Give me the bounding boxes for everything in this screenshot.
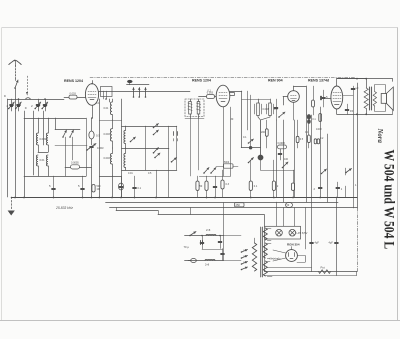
wire HT run — [267, 267, 312, 269]
wire osc vertical — [99, 99, 101, 197]
wire B+ v4 — [306, 115, 307, 249]
label misc b — [25, 106, 27, 110]
page edge right — [397, 28, 399, 320]
tube V3 electrodes — [291, 96, 297, 101]
wire box right vertical2 — [176, 126, 178, 170]
node input dashed link — [26, 76, 28, 95]
output transformer T2 core — [370, 87, 372, 110]
wire antenna lead-in — [15, 78, 17, 81]
label C3 value — [31, 104, 33, 108]
label L10 — [263, 108, 270, 111]
resistor R5 — [196, 176, 199, 197]
wire rail3 left — [24, 176, 86, 178]
wire rect to filter — [297, 256, 306, 263]
IF T1 hatch — [188, 103, 201, 111]
wire box vert mid — [145, 126, 147, 170]
resistor R5b — [205, 176, 208, 197]
label misc d — [231, 118, 234, 121]
wire osc link y120 — [99, 120, 121, 122]
switch S8 tone — [321, 169, 327, 174]
capacitor C3 — [34, 99, 40, 111]
label selector voltages — [243, 250, 247, 264]
wire V1 drop — [86, 118, 88, 176]
page edge left — [1, 28, 3, 320]
label R6 — [226, 183, 230, 186]
resistor R9 — [291, 170, 294, 197]
capacitor C22 — [218, 235, 222, 249]
wire B+ v1 — [276, 120, 278, 226]
wire B+ v2 — [283, 120, 285, 226]
label L2 value — [40, 158, 46, 162]
switch S3a — [130, 137, 136, 142]
svg-text:0.5: 0.5 — [300, 138, 304, 141]
wire V1 plate out — [99, 91, 190, 100]
capacitor C20 — [336, 182, 343, 197]
wire bottom power 2 — [265, 272, 357, 276]
wire kHz drop — [156, 170, 158, 197]
label C8 — [326, 95, 328, 99]
mains choke L12 — [206, 229, 216, 236]
switch S12 — [210, 168, 216, 174]
coil L4 — [46, 155, 48, 176]
capacitor C17 — [278, 149, 282, 160]
wire V3 plate out — [294, 86, 307, 115]
connector blob dial — [127, 80, 132, 85]
wire band sw drop b — [72, 137, 74, 160]
wire box top rail — [122, 126, 177, 128]
svg-text:0.1: 0.1 — [243, 136, 247, 139]
tube V1 envelope — [85, 84, 98, 106]
label R8 — [277, 185, 279, 188]
svg-text:70 µ: 70 µ — [184, 245, 190, 249]
svg-text:0.003: 0.003 — [104, 133, 111, 136]
switch S5 — [248, 158, 254, 164]
capacitor C8 — [322, 90, 326, 107]
switch S2 band left a — [62, 130, 67, 138]
component dark C18 — [307, 114, 317, 124]
bus ground main — [11, 197, 357, 199]
switch S3c — [153, 130, 159, 135]
label tube V1 RENS 1204 — [64, 79, 83, 83]
label RGN 354 — [287, 242, 300, 246]
IF T1 coil a — [189, 99, 192, 118]
label Netztrafo — [270, 257, 281, 261]
capacitor C23 — [221, 249, 225, 261]
label misc l — [128, 172, 133, 175]
label misc e — [243, 136, 247, 139]
wire left vertical 2 — [15, 99, 17, 197]
wire det h3 — [250, 160, 252, 162]
tube V2 side tab — [230, 93, 235, 96]
resistor R11 — [261, 120, 268, 148]
svg-text:0.0005: 0.0005 — [71, 162, 79, 165]
wire B+ v8 — [336, 197, 338, 276]
wire secondary bottom loop — [375, 103, 386, 111]
resistor R12 — [296, 120, 304, 148]
svg-text:30: 30 — [231, 118, 234, 121]
svg-text:1/4W: 1/4W — [316, 128, 322, 131]
svg-text:1: 1 — [341, 187, 343, 191]
resistor R7 — [249, 160, 252, 197]
speaker LS cone — [386, 87, 393, 110]
transformer secondary winding — [263, 228, 272, 277]
coupling cap C16 — [278, 142, 287, 149]
coupling cap C9 — [321, 96, 322, 100]
svg-text:0.2: 0.2 — [320, 137, 324, 140]
mains switch S10 — [189, 232, 196, 237]
svg-text:2×8: 2×8 — [206, 229, 211, 232]
mains wire top — [185, 235, 224, 237]
wire V4 plate top — [337, 79, 367, 87]
capacitor C12 — [118, 176, 123, 197]
wire bottom power — [265, 271, 358, 273]
svg-text:0.003: 0.003 — [70, 92, 77, 95]
coil L5 — [110, 99, 112, 120]
coil L3 — [46, 118, 48, 152]
capacitor C2 — [15, 98, 21, 111]
mains choke L13 — [205, 259, 215, 266]
resistor R10 — [92, 185, 101, 193]
wire det h2 — [261, 170, 295, 172]
resistor R4 — [312, 86, 315, 115]
resistor R16 — [285, 202, 292, 207]
IF coil L10 — [255, 99, 262, 120]
wire V3 cathode — [293, 102, 295, 120]
svg-text:REN 904: REN 904 — [268, 79, 283, 83]
svg-text:0.003: 0.003 — [104, 157, 111, 160]
capacitor C12b — [213, 176, 217, 197]
label C1 value — [7, 104, 9, 108]
coil L9 — [124, 148, 126, 170]
label lamps — [297, 231, 308, 235]
svg-text:250: 250 — [236, 203, 241, 207]
coil L8 — [124, 126, 126, 148]
wire V2 cathode down — [223, 107, 225, 176]
switch S3d — [153, 148, 159, 154]
wire B+ v6 — [319, 107, 322, 197]
tube V2 grid — [219, 93, 227, 102]
label tube V4 RENS 1374d — [308, 79, 329, 83]
label L1 value — [40, 137, 47, 141]
wire output top rail — [337, 78, 393, 82]
wire band sw rail — [55, 118, 80, 130]
bus 3 — [110, 207, 358, 209]
label R1 value — [70, 92, 77, 95]
tube V3 envelope — [288, 91, 300, 103]
label L6 value — [104, 133, 111, 136]
wire mains to selector — [223, 236, 241, 261]
switch S4 detector — [278, 112, 285, 118]
wire power frame left — [264, 239, 266, 272]
tube V4 grid — [333, 93, 341, 105]
svg-text:2: 2 — [314, 187, 316, 191]
svg-text:Pot: Pot — [321, 266, 325, 270]
padder C5 — [65, 165, 92, 169]
junction dots on ground bus — [14, 197, 321, 199]
svg-text:RENS 1204: RENS 1204 — [64, 79, 83, 83]
wire V1 cathode down — [91, 105, 93, 118]
capacitor C1 — [8, 99, 14, 111]
wire band sw drop a — [65, 137, 67, 176]
capacitor C13 — [133, 176, 142, 197]
IF T1 coil b — [197, 99, 200, 118]
wire tone v — [345, 168, 347, 197]
svg-text:0.01: 0.01 — [104, 107, 109, 110]
switch S2 band left b — [69, 130, 74, 138]
svg-text:W 504 und W 504 L: W 504 und W 504 L — [381, 150, 398, 250]
resistor R15 — [235, 203, 245, 207]
shield border right — [357, 208, 359, 272]
tube V4 envelope — [331, 86, 343, 109]
label misc k — [208, 90, 212, 93]
coil L1 — [36, 118, 38, 152]
switch S3b — [153, 124, 159, 129]
svg-text:200: 200 — [261, 131, 266, 134]
tube V1 top tip — [91, 81, 92, 85]
switch S6 — [248, 139, 254, 144]
wire screen drop — [343, 86, 354, 208]
wire coils top rail — [242, 99, 270, 101]
wire caps join — [202, 249, 223, 251]
switch S11 — [203, 168, 209, 174]
wire V2 plate out — [230, 91, 251, 148]
switch S7 — [282, 162, 288, 168]
wire lamp box — [265, 226, 301, 239]
wire secondary top loop — [375, 85, 386, 94]
resistor R8 — [272, 160, 275, 197]
wire box right vertical — [168, 126, 170, 197]
capacitor C21 — [201, 241, 203, 245]
svg-text:RENS 1374d: RENS 1374d — [308, 79, 329, 83]
capacitor C7 — [274, 99, 278, 120]
grid stopper R1 — [64, 95, 85, 99]
svg-text:RENS 1204: RENS 1204 — [192, 79, 211, 83]
label misc a — [4, 94, 6, 98]
wire bus drop a — [190, 208, 192, 215]
filter cap C25 — [329, 242, 339, 245]
connection arrows dial — [132, 88, 147, 98]
resistor R17 — [216, 162, 238, 168]
wire T1 to V2 — [199, 96, 205, 98]
bus 2 — [106, 202, 338, 204]
switch S1 antenna — [14, 80, 18, 89]
IF transformer T1 box — [185, 99, 204, 117]
svg-text:0.01: 0.01 — [40, 158, 46, 162]
tube V1 grid — [88, 92, 96, 100]
svg-text:1: 1 — [355, 183, 357, 187]
wire V4 cathode down — [336, 109, 338, 114]
wire osc join bottom — [99, 176, 121, 197]
coil L2 — [36, 155, 38, 176]
svg-text:Nora: Nora — [376, 128, 383, 144]
svg-text:0.3: 0.3 — [226, 183, 230, 186]
IF coil L11 — [261, 99, 274, 120]
svg-text:50: 50 — [200, 185, 203, 188]
svg-text:5000: 5000 — [224, 162, 230, 164]
label R5 — [200, 185, 203, 188]
svg-text:0.003: 0.003 — [40, 137, 47, 141]
label R7 — [254, 185, 258, 188]
svg-text:15: 15 — [350, 109, 354, 113]
ground symbol — [8, 197, 15, 216]
label tube V2 RENS 1204 — [192, 79, 211, 83]
wire V4 grid lead — [326, 98, 331, 100]
svg-text:0.003: 0.003 — [263, 108, 270, 111]
mains wire bottom — [185, 260, 224, 262]
label misc j — [355, 183, 357, 187]
svg-text:0.1: 0.1 — [138, 187, 142, 190]
wire box mid rail — [122, 148, 169, 150]
coil L6 — [110, 120, 112, 148]
wire box left vertical — [121, 99, 123, 197]
rectifier V5 anodes — [289, 253, 295, 259]
wire det v — [260, 120, 262, 170]
capacitor C15 — [78, 176, 84, 197]
svg-text:D: D — [4, 94, 6, 98]
svg-text:Netztrafo: Netztrafo — [270, 257, 281, 261]
tuning cap TC1 — [89, 118, 94, 145]
label misc f — [284, 158, 289, 161]
wire left vertical 1 — [7, 99, 9, 197]
wire B+ v7 — [327, 134, 329, 202]
page edge bottom — [0, 320, 400, 322]
transformer core — [261, 227, 263, 277]
rectifier V5 envelope — [286, 250, 298, 262]
capacitor C21b — [200, 235, 204, 249]
wire right border solid — [357, 83, 359, 208]
svg-text:0.1: 0.1 — [254, 185, 258, 188]
wire det vertical c — [230, 107, 232, 176]
wire B+ v3 — [294, 120, 296, 226]
voltage selector arrows — [241, 249, 248, 270]
dial lamp LP1 — [276, 229, 283, 236]
tube V2 envelope — [216, 85, 230, 107]
label misc h — [305, 131, 309, 134]
svg-text:0.5: 0.5 — [148, 172, 152, 175]
wire box bottom rail — [122, 170, 177, 172]
dial lamp box — [101, 87, 113, 97]
wire det h1 — [241, 147, 260, 149]
svg-text:1W: 1W — [97, 188, 101, 191]
wire coil join — [38, 152, 48, 154]
grid resistor R2 — [204, 95, 216, 99]
label tube V3 REN 904 — [268, 79, 283, 83]
label L5 value — [104, 107, 109, 110]
transformer primary winding — [252, 238, 256, 271]
switch S3g contacts — [174, 132, 178, 142]
output transformer T2 primary — [364, 79, 368, 115]
label L7 value — [104, 157, 111, 160]
wire antenna to rail — [15, 88, 17, 99]
wire det rail — [199, 176, 230, 178]
label misc c — [96, 102, 100, 105]
potentiometer Pot — [319, 266, 331, 274]
wire V3 grid in — [283, 97, 288, 106]
wire rect top — [291, 247, 293, 250]
svg-text:4µF: 4µF — [315, 242, 320, 245]
label C5 value — [71, 162, 79, 165]
wire rect heater — [273, 250, 286, 261]
dial lamp LP2 — [289, 229, 296, 236]
svg-text:0.0005: 0.0005 — [278, 142, 286, 145]
svg-text:25-833 kHz: 25-833 kHz — [55, 206, 73, 210]
svg-text:2: 2 — [31, 104, 33, 108]
label R2 value — [207, 92, 214, 95]
page edge top — [2, 27, 398, 29]
resistor R6 — [221, 170, 224, 197]
wire rail 2 — [24, 118, 86, 120]
label misc g — [316, 128, 322, 131]
label TC2 value — [97, 146, 104, 150]
resistor R13 — [308, 123, 311, 149]
svg-text:0.1: 0.1 — [312, 118, 316, 121]
filter cap C24 — [310, 242, 320, 245]
svg-text:LPZ 8,5V: LPZ 8,5V — [297, 231, 308, 235]
svg-text:5: 5 — [49, 184, 51, 188]
svg-text:50: 50 — [287, 204, 290, 207]
wire mid left h — [55, 145, 87, 147]
coil L7 — [110, 148, 112, 176]
wire osc vertical 2 — [109, 99, 111, 102]
speaker LS magnet — [381, 94, 386, 104]
label frequency range — [55, 206, 73, 210]
mains plug — [188, 259, 196, 263]
svg-text:D: D — [25, 106, 27, 110]
wire B+ v5 — [311, 115, 313, 272]
wire padder drop — [91, 165, 93, 197]
label TC1 — [96, 134, 100, 138]
shield border top — [90, 77, 355, 79]
svg-text:4µF: 4µF — [329, 242, 334, 245]
label L11 — [274, 108, 278, 111]
cathode cap C10 — [345, 104, 353, 114]
junction dot B — [249, 146, 252, 149]
wire left vertical 5 — [43, 111, 45, 145]
switch S9 — [345, 169, 351, 174]
wire left vertical 4 — [33, 111, 35, 175]
svg-text:2: 2 — [277, 185, 279, 188]
capacitor C14 — [49, 176, 55, 197]
bus 4 — [116, 208, 265, 227]
antenna — [9, 60, 21, 78]
resistor R14 pair — [314, 139, 319, 144]
label misc i — [320, 137, 324, 140]
wire bus drop b — [223, 203, 225, 236]
switch S3f — [171, 158, 177, 163]
wire T1 bottom rail — [185, 118, 204, 176]
output transformer T2 secondary — [373, 92, 376, 106]
wire output bottom rail — [337, 110, 393, 115]
wire left vertical 3 — [24, 111, 26, 197]
junction blob A — [258, 155, 264, 161]
svg-text:0.003: 0.003 — [97, 146, 104, 150]
title W504 — [381, 150, 398, 250]
svg-text:100: 100 — [284, 158, 289, 161]
title Nora — [376, 128, 383, 144]
capacitor C4 — [41, 98, 47, 111]
switch S3e — [154, 153, 160, 158]
capacitor C19 — [314, 187, 323, 191]
wire top rail left — [8, 98, 65, 100]
svg-text:RGN 354: RGN 354 — [287, 242, 300, 246]
svg-text:0.01: 0.01 — [128, 172, 133, 175]
trimmer TC2 — [86, 144, 96, 166]
capacitor C11 — [351, 86, 359, 90]
label mains cap — [184, 245, 190, 249]
svg-text:0.1: 0.1 — [96, 102, 100, 105]
wire dial rail — [127, 84, 150, 86]
label misc m — [148, 172, 152, 175]
